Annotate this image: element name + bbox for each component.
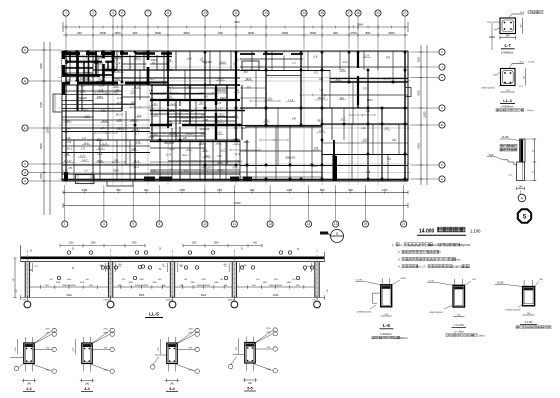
svg-text:16: 16 [334, 222, 338, 226]
svg-text:LL8: LL8 [233, 62, 238, 65]
svg-text:15300: 15300 [424, 111, 427, 118]
svg-text:17: 17 [347, 11, 351, 15]
svg-text:270: 270 [35, 266, 38, 268]
svg-text:QL1: QL1 [387, 157, 392, 160]
svg-text:QL1: QL1 [203, 170, 208, 173]
svg-text:650: 650 [217, 188, 222, 192]
section mid box [453, 285, 465, 307]
svg-text:1:100: 1:100 [470, 228, 481, 233]
bottom stair protrusion 2 [107, 181, 133, 186]
svg-text:LL-4: LL-4 [166, 154, 171, 157]
svg-text:2-2: 2-2 [26, 387, 32, 391]
svg-text:2840: 2840 [357, 23, 363, 27]
svg-text:970: 970 [131, 102, 136, 105]
svg-text:Φ8@200: Φ8@200 [77, 97, 87, 100]
svg-text:1500: 1500 [131, 243, 137, 245]
axis bubble K (right) [439, 49, 445, 55]
svg-text:1220: 1220 [191, 243, 197, 245]
svg-text:175: 175 [81, 148, 86, 151]
svg-text:2Φ10: 2Φ10 [113, 170, 120, 173]
axis bubble 13 (bottom) [267, 221, 273, 227]
plan interior grid lines [65, 49, 67, 185]
svg-text:270: 270 [224, 266, 227, 268]
svg-text:5840: 5840 [234, 21, 240, 24]
section right label [520, 324, 537, 326]
svg-text:135|135: 135|135 [103, 300, 111, 302]
svg-text:+0.000: +0.000 [528, 61, 536, 63]
bottom dimension line 1 [63, 191, 408, 193]
svg-text:14.000: 14.000 [419, 228, 435, 234]
svg-text:3: 3 [103, 222, 105, 226]
beam section 3-3 [82, 343, 93, 364]
plan partition walls [65, 51, 67, 181]
svg-text:900: 900 [348, 188, 353, 192]
svg-text:K: K [441, 50, 443, 54]
svg-text:1750: 1750 [179, 188, 185, 192]
svg-text:270: 270 [180, 266, 183, 268]
svg-text:19: 19 [364, 222, 368, 226]
svg-text:3900: 3900 [139, 294, 145, 297]
svg-text:3300: 3300 [39, 63, 43, 69]
svg-text:3000: 3000 [248, 31, 255, 35]
svg-text:LL-4: LL-4 [187, 58, 192, 61]
svg-text:850: 850 [320, 188, 325, 192]
wall section detail [520, 139, 526, 162]
right overall dimension [426, 45, 428, 185]
svg-text:JKL-17,: JKL-17, [416, 265, 427, 269]
svg-text:2700: 2700 [350, 31, 357, 35]
beam section 4-4 [167, 343, 178, 364]
svg-text:Φ8@100/200: Φ8@100/200 [197, 284, 211, 287]
axis bubble 10 (bottom) [202, 221, 208, 227]
svg-text:21: 21 [403, 11, 407, 15]
section cut mark 5 (plan) [331, 230, 344, 243]
svg-text:L=3040mm: L=3040mm [501, 105, 514, 108]
svg-text:LL-9: LL-9 [149, 136, 154, 139]
svg-text:1: 1 [64, 222, 66, 226]
left bay window [53, 94, 62, 112]
svg-text:L48: L48 [292, 118, 297, 121]
detail LL-4 box [501, 69, 516, 86]
svg-text:170: 170 [169, 69, 174, 72]
axis bubble 14 (top) [301, 10, 307, 16]
axis bubble 19 (bottom) [362, 221, 368, 227]
top bay window [242, 61, 259, 70]
section L-5 box [381, 285, 392, 307]
svg-text:8: 8 [167, 11, 169, 15]
axis bubble 8 (bottom) [156, 221, 162, 227]
svg-text:E: E [441, 123, 443, 127]
axis bubble 16 (bottom) [333, 221, 339, 227]
svg-text:L48: L48 [392, 139, 397, 142]
axis bubble E (left) [22, 125, 28, 131]
svg-text:600mm: 600mm [400, 337, 408, 340]
svg-text:[Z]: [Z] [437, 250, 441, 254]
svg-text:JKL-17: JKL-17 [116, 113, 124, 116]
svg-text:18: 18 [356, 11, 360, 15]
axis bubble 10 (top) [202, 10, 208, 16]
svg-text:3050: 3050 [418, 90, 421, 96]
svg-text:900: 900 [133, 31, 138, 35]
svg-text:15300: 15300 [46, 126, 50, 134]
svg-text:2Φ10: 2Φ10 [367, 99, 374, 102]
svg-text:135|135: 135|135 [165, 300, 173, 302]
svg-text:L-7: L-7 [505, 43, 512, 48]
svg-text:50mm: 50mm [527, 110, 533, 112]
svg-text:135|135: 135|135 [227, 300, 235, 302]
svg-text:1: 1 [65, 11, 67, 15]
svg-text:L-30: L-30 [203, 119, 208, 122]
svg-text:Φ8@200: Φ8@200 [112, 57, 122, 60]
section right box [523, 287, 535, 306]
top dimension line 1 [63, 26, 408, 28]
svg-text:4Φ16: 4Φ16 [489, 36, 496, 39]
left vertical dimension line [43, 42, 45, 215]
svg-text:900: 900 [144, 188, 149, 192]
svg-text:E: E [24, 126, 26, 130]
svg-text:21: 21 [402, 222, 406, 226]
svg-text:LL8: LL8 [362, 127, 367, 130]
svg-text:LL-7: LL-7 [236, 58, 241, 61]
svg-text:3900: 3900 [201, 294, 207, 297]
svg-text:10: 10 [203, 11, 207, 15]
svg-text:10: 10 [203, 222, 207, 226]
svg-text:2Φ10: 2Φ10 [244, 141, 251, 144]
axis bubble 14 (bottom) [306, 221, 312, 227]
svg-text:LL-4: LL-4 [503, 98, 512, 103]
svg-text:LL-5: LL-5 [149, 312, 159, 317]
svg-text:Φ8@200: Φ8@200 [200, 128, 210, 131]
svg-text:GL-1: GL-1 [182, 154, 188, 157]
svg-text:8: 8 [158, 222, 160, 226]
axis bubble 5 (bottom) [130, 221, 136, 227]
svg-text:3600: 3600 [183, 31, 190, 35]
svg-text:6: 6 [121, 11, 123, 15]
axis bubble A (right) [439, 176, 445, 182]
svg-text:1500: 1500 [114, 31, 121, 35]
right vertical dimension line [420, 45, 422, 185]
beam LL-5 end dimension [14, 258, 16, 298]
detail L-7 top leader [512, 13, 524, 15]
axis bubble 18 (top) [355, 10, 361, 16]
svg-text:L48: L48 [66, 128, 71, 131]
svg-text:2600: 2600 [155, 31, 162, 35]
svg-text:5-5: 5-5 [247, 387, 253, 391]
plan columns [204, 51, 207, 54]
svg-text:LL-7: LL-7 [150, 78, 155, 81]
svg-text::1: :1 [400, 243, 403, 247]
beam LL-5 supports [24, 262, 26, 298]
svg-text:L=4.300: L=4.300 [454, 323, 464, 327]
svg-text:970: 970 [244, 71, 249, 74]
svg-text:4700: 4700 [39, 102, 43, 108]
axis bubble C (left) [22, 161, 28, 167]
svg-text:Φ8@100/200: Φ8@100/200 [481, 86, 495, 89]
svg-text:3600: 3600 [39, 143, 43, 149]
svg-text:5: 5 [336, 232, 338, 236]
axis bubble 6 (top) [119, 10, 125, 16]
axis bubble F (right) [439, 105, 445, 111]
section mark 5 (sheet) [518, 209, 531, 222]
svg-text:1-4.300: 1-4.300 [524, 321, 533, 324]
axis bubble 11 (top) [233, 10, 239, 16]
axis bubble E (right) [439, 122, 445, 128]
axis bubble 21 (bottom) [401, 221, 407, 227]
axis bubble 17 (top) [346, 10, 352, 16]
svg-text:50mm: 50mm [452, 257, 461, 261]
beam LL-5 span dimensions [21, 297, 325, 299]
wall section step leader [503, 159, 508, 161]
beam LL-5 left end line [20, 245, 22, 262]
beam LL-5 support circles [24, 301, 31, 308]
svg-text:1780: 1780 [81, 188, 87, 192]
plan outer boundary [62, 50, 408, 52]
svg-text:Φ8@200: Φ8@200 [202, 61, 212, 64]
svg-text:GL-1: GL-1 [133, 166, 139, 169]
beam section 2-2 [24, 343, 35, 364]
svg-text:170: 170 [217, 102, 222, 105]
svg-text:860: 860 [366, 31, 371, 35]
svg-text:1500: 1500 [90, 243, 96, 245]
axis bubble H (right) [439, 74, 445, 80]
svg-text:GL-4: GL-4 [66, 61, 72, 64]
beam LL-5 top flange [21, 256, 325, 259]
svg-text:1780: 1780 [286, 188, 292, 192]
svg-text:100mm: 100mm [428, 243, 439, 247]
detail LL-4 top leader [512, 63, 524, 65]
svg-text:11: 11 [233, 222, 237, 226]
detail LL-4 dims [525, 69, 527, 86]
svg-text:Φ8@200.: Φ8@200. [458, 243, 471, 247]
svg-text:GL-2: GL-2 [67, 148, 73, 151]
svg-text:1500: 1500 [418, 57, 421, 63]
axis bubble 4 (top) [110, 10, 116, 16]
svg-text:A: A [24, 179, 26, 183]
svg-text:170: 170 [64, 131, 69, 134]
svg-text:240: 240 [319, 78, 324, 81]
axis bubble 1 (bottom) [62, 221, 68, 227]
svg-text:1500: 1500 [213, 243, 219, 245]
axis bubble C (right) [439, 162, 445, 168]
svg-text:7: 7 [147, 11, 149, 15]
svg-text:K: K [24, 48, 26, 52]
svg-text:14Φ8@100/200: 14Φ8@100/200 [505, 309, 521, 312]
svg-text:2840: 2840 [100, 31, 107, 35]
axis bubble 1 (top) [63, 10, 69, 16]
right edge bay [405, 88, 411, 97]
svg-text:4-4: 4-4 [169, 387, 175, 391]
axis bubble J (right) [439, 64, 445, 70]
svg-text:4Φ8@100/200: 4Φ8@100/200 [357, 311, 372, 314]
svg-text:JKL-17: JKL-17 [383, 78, 391, 81]
svg-text:270: 270 [162, 266, 165, 268]
svg-text:2Φ18: 2Φ18 [317, 119, 324, 122]
svg-text:16: 16 [320, 11, 324, 15]
svg-text:4200: 4200 [273, 294, 279, 297]
svg-text:H: H [441, 76, 443, 80]
svg-text:1800: 1800 [39, 173, 43, 179]
axis bubble K (left) [22, 47, 28, 53]
svg-text:11: 11 [234, 11, 238, 15]
svg-text:LL8: LL8 [313, 55, 318, 58]
svg-text:Φ8@100/200: Φ8@100/200 [429, 311, 443, 314]
svg-text:0mm.: 0mm. [479, 334, 485, 337]
svg-text:850: 850 [116, 188, 121, 192]
axis bubble G (left) [22, 78, 28, 84]
svg-text:900: 900 [218, 31, 223, 35]
svg-text:900: 900 [333, 31, 338, 35]
axis bubble 16 (top) [319, 10, 325, 16]
svg-text:LL-4: LL-4 [312, 165, 317, 168]
axis bubble A (left) [22, 178, 28, 184]
svg-text:175: 175 [68, 167, 73, 170]
svg-text:Φ8@200: Φ8@200 [285, 157, 295, 160]
svg-text:170: 170 [67, 141, 72, 144]
svg-text:4200: 4200 [66, 294, 72, 297]
svg-text:Φ8@200: Φ8@200 [164, 142, 174, 145]
svg-text:2600: 2600 [388, 31, 395, 35]
svg-text:43400: 43400 [233, 201, 241, 205]
svg-text:13: 13 [264, 11, 268, 15]
axis bubble 20 (top) [375, 10, 381, 16]
svg-text:LL-9: LL-9 [343, 61, 348, 64]
svg-text:900: 900 [250, 188, 255, 192]
axis bubble 11 (bottom) [231, 221, 237, 227]
svg-text:LL-4: LL-4 [235, 153, 240, 156]
svg-text:2Φ18: 2Φ18 [183, 120, 190, 123]
plan shear walls [62, 52, 115, 55]
plan interior dim ticks [95, 92, 117, 94]
svg-text:L=2040mm: L=2040mm [380, 333, 392, 336]
bottom stair protrusion 1 [76, 175, 95, 184]
beam LL-5 stirrup rows [30, 286, 109, 288]
svg-text:270: 270 [242, 266, 245, 268]
svg-text:4: 4 [112, 11, 114, 15]
svg-text:270: 270 [118, 266, 121, 268]
svg-text:14: 14 [307, 222, 311, 226]
svg-text:240: 240 [77, 31, 82, 35]
axis bubble 7 (top) [145, 10, 151, 16]
plan extra walls [150, 84, 240, 86]
svg-text:LL8: LL8 [183, 137, 188, 140]
svg-text:Φ8@200: Φ8@200 [202, 166, 212, 169]
bottom dimension line 2 [63, 204, 408, 206]
svg-text:20: 20 [376, 11, 380, 15]
axis bubble 8 (top) [165, 10, 171, 16]
top dimension line 2 [63, 34, 408, 36]
svg-text:2900: 2900 [282, 31, 289, 35]
svg-text:4000: 4000 [418, 143, 421, 149]
svg-text:LL-9: LL-9 [117, 97, 122, 100]
svg-text:270: 270 [100, 266, 103, 268]
detail L-7 dims [522, 18, 524, 34]
svg-text:GL-4: GL-4 [169, 148, 175, 151]
svg-text:3: 3 [92, 11, 94, 15]
axis bubble 21 (top) [402, 10, 408, 16]
detail L-7 box [500, 18, 516, 34]
svg-text:20Φ4: 20Φ4 [400, 277, 406, 280]
beam section 5-5 [245, 343, 256, 364]
svg-text:2Φ14: 2Φ14 [99, 57, 106, 60]
svg-text:5: 5 [132, 222, 134, 226]
axis bubble B (left) [22, 169, 28, 175]
svg-text:A: A [441, 177, 443, 181]
svg-text:1220: 1220 [68, 243, 74, 245]
svg-text:L=...0mm: L=...0mm [454, 331, 464, 334]
axis bubble A (wall section) [518, 194, 526, 202]
svg-text:L-5: L-5 [383, 323, 390, 328]
svg-text:970: 970 [234, 127, 239, 130]
svg-text:LL-7: LL-7 [100, 85, 105, 88]
svg-text:Φ8@100/200: Φ8@100/200 [135, 284, 149, 287]
svg-text:B: B [24, 171, 26, 175]
svg-text:3-3: 3-3 [84, 387, 90, 391]
axis bubble 3 (bottom) [101, 221, 107, 227]
wall section dim [534, 139, 536, 181]
beam LL-5 rebar number bubbles [67, 251, 70, 254]
svg-text:Φ8@100/200: Φ8@100/200 [62, 284, 76, 287]
axis bubble 3 (top) [90, 10, 96, 16]
svg-text:1750: 1750 [382, 188, 388, 192]
svg-text:L48: L48 [366, 171, 371, 174]
svg-text:170: 170 [314, 71, 319, 74]
svg-text:F: F [441, 106, 443, 110]
svg-text:14: 14 [302, 11, 306, 15]
beam LL-5 top dimensions [60, 245, 145, 247]
svg-text:3000: 3000 [310, 31, 317, 35]
svg-text:Φ8@100/200: Φ8@100/200 [269, 284, 283, 287]
section mid label [452, 327, 467, 329]
left overall dimension [49, 42, 51, 215]
section L-5 dims [381, 315, 392, 317]
svg-text:13: 13 [268, 222, 272, 226]
svg-text:970: 970 [386, 57, 391, 60]
svg-text:270: 270 [307, 266, 310, 268]
svg-text:L=2840mm: L=2840mm [501, 52, 514, 55]
svg-text:GL-1: GL-1 [83, 109, 89, 112]
axis bubble 13 (top) [263, 10, 269, 16]
svg-text:LL-4: LL-4 [115, 63, 120, 66]
svg-text:170: 170 [363, 88, 368, 91]
